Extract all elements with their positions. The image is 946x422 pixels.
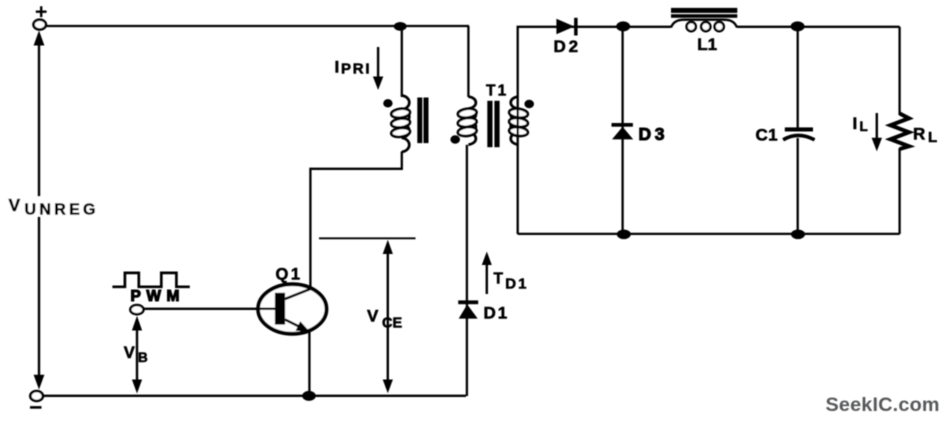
svg-text:V: V <box>124 344 135 362</box>
transistor Q1 emitter arrowhead <box>296 321 313 336</box>
transformer T1 core bar 1b <box>424 98 429 144</box>
transformer T1 middle winding scallops <box>468 97 476 145</box>
svg-text:SeekIC.com: SeekIC.com <box>826 394 940 416</box>
label V_CE <box>367 306 402 331</box>
label V_UNREG <box>2 195 99 219</box>
svg-text:R: R <box>913 124 925 143</box>
svg-text:D2: D2 <box>554 37 581 56</box>
T_D1 arrowhead up <box>482 252 492 266</box>
transformer T1 secondary loop 2 <box>509 117 529 128</box>
transformer T1 core bar 1a <box>417 98 422 144</box>
svg-text:L1: L1 <box>697 35 717 54</box>
svg-text:T1: T1 <box>486 82 509 99</box>
label T_D1 <box>494 270 529 292</box>
I_PRI arrowhead down <box>373 77 383 91</box>
svg-text:I: I <box>335 57 340 76</box>
svg-text:L: L <box>860 119 868 134</box>
V_CE reference line <box>319 237 416 239</box>
terminal PWM <box>130 305 143 314</box>
wire emitter down to bottom rail <box>308 331 310 396</box>
svg-text:D1: D1 <box>505 276 528 293</box>
label minus sign <box>30 406 42 409</box>
V_B arrowhead down <box>132 380 142 394</box>
I_L arrowhead down <box>872 138 882 152</box>
T_D1 arrow line <box>486 261 488 294</box>
capacitor C1 curved bottom plate <box>783 135 815 139</box>
node junction dot emitter bottom <box>302 391 316 401</box>
label I_PRI <box>335 57 372 77</box>
transformer T1 primary phase dot <box>383 99 392 107</box>
wire primary bottom to collector: down, left, down <box>310 152 401 290</box>
node junction dot D3 top <box>616 21 630 31</box>
wire secondary top riser and output top rail <box>518 27 671 234</box>
transformer T1 primary loop 3 <box>391 127 411 138</box>
label plus sign <box>36 6 47 17</box>
V_CE arrow line <box>387 250 389 382</box>
terminal minus <box>30 391 43 401</box>
wire output right vertical upper <box>898 27 900 115</box>
transformer T1 secondary loop 1 <box>509 108 529 119</box>
svg-text:PRI: PRI <box>341 60 371 77</box>
transistor Q1 collector stroke <box>285 289 311 299</box>
diode D2 triangle <box>556 19 574 35</box>
svg-text:V: V <box>367 306 379 325</box>
label I_L <box>853 114 868 134</box>
transformer T1 middle loop 1 <box>457 108 477 119</box>
wire D3 branch <box>621 27 623 234</box>
transistor Q1 emitter stroke <box>285 320 305 330</box>
wire middle winding drop from top rail <box>467 26 469 97</box>
inductor L1 loop 3 <box>715 22 724 31</box>
svg-text:T: T <box>494 270 504 287</box>
resistor RL zigzag <box>891 114 910 150</box>
diode D3 cathode bar <box>612 123 633 127</box>
V_UNREG measure arrow line <box>38 41 40 378</box>
svg-text:CE: CE <box>382 315 402 331</box>
inductor L1 core bar top <box>671 8 737 13</box>
node junction dot C1 top <box>791 21 805 31</box>
transformer T1 core bar 2a <box>487 101 492 147</box>
wire C1 branch upper <box>797 27 799 128</box>
transformer T1 middle phase dot <box>450 135 460 143</box>
label R_L <box>913 124 937 146</box>
wire primary winding top drop <box>401 26 403 97</box>
V_UNREG arrowhead down <box>34 375 45 390</box>
wire top rail left section <box>46 25 469 27</box>
diode D3 triangle <box>612 127 633 140</box>
transistor Q1 body circle <box>258 284 326 334</box>
svg-text:L: L <box>928 129 937 146</box>
wire output bottom rail <box>518 233 900 235</box>
svg-text:D3: D3 <box>639 124 669 144</box>
wire bottom rail left section <box>42 395 466 397</box>
transistor Q1 base bar <box>275 293 285 325</box>
transformer T1 secondary loop 3 <box>509 126 529 137</box>
inductor L1 loop 2 <box>701 22 710 31</box>
terminal plus <box>34 20 46 30</box>
wire base inside transistor <box>259 308 278 310</box>
transformer T1 primary loop 1 <box>391 108 411 119</box>
V_B measure arrow line <box>136 326 138 382</box>
V_CE arrowhead down <box>383 380 393 394</box>
wire output right vertical lower <box>898 148 900 234</box>
V_B arrowhead up <box>132 316 142 331</box>
svg-text:C1: C1 <box>756 125 778 144</box>
diode D1 cathode bar <box>458 300 478 304</box>
node junction dot C1 bottom <box>791 230 805 240</box>
wire C1 branch lower <box>797 138 799 234</box>
diode D1 triangle <box>459 304 478 318</box>
svg-text:PWM: PWM <box>131 288 185 305</box>
transformer T1 primary winding scallops <box>402 96 410 152</box>
svg-text:D1: D1 <box>484 303 510 322</box>
transformer T1 primary loop 2 <box>391 117 411 128</box>
diode D2 cathode bar <box>574 18 578 36</box>
transformer T1 middle loop 2 <box>457 117 477 128</box>
svg-text:V: V <box>9 195 21 215</box>
transformer T1 secondary winding scallops <box>511 97 519 145</box>
svg-text:B: B <box>138 350 148 365</box>
inductor L1 core bar bottom <box>671 14 737 18</box>
node junction dot primary top <box>394 22 407 31</box>
transformer T1 middle loop 3 <box>457 126 477 137</box>
svg-text:I: I <box>853 114 858 133</box>
inductor L1 hump outline <box>671 20 737 28</box>
inductor L1 loop 1 <box>687 22 696 31</box>
transformer T1 secondary phase dot <box>524 100 534 108</box>
transformer T1 core bar 2b <box>494 101 499 147</box>
wire output top rail after L1 <box>737 26 900 28</box>
wire D1 branch vertical <box>466 145 468 396</box>
V_UNREG arrowhead up <box>34 31 45 46</box>
V_CE arrowhead up <box>383 240 393 254</box>
capacitor C1 top plate <box>785 127 813 131</box>
PWM square wave <box>112 273 189 287</box>
svg-text:Q1: Q1 <box>276 266 303 284</box>
I_PRI arrow line <box>377 47 379 79</box>
svg-text:UNREG: UNREG <box>25 202 99 219</box>
node junction dot D3 bottom <box>617 230 631 240</box>
label V_B <box>124 344 148 365</box>
wire PWM base wire <box>144 308 276 310</box>
I_L arrow line <box>876 113 878 140</box>
